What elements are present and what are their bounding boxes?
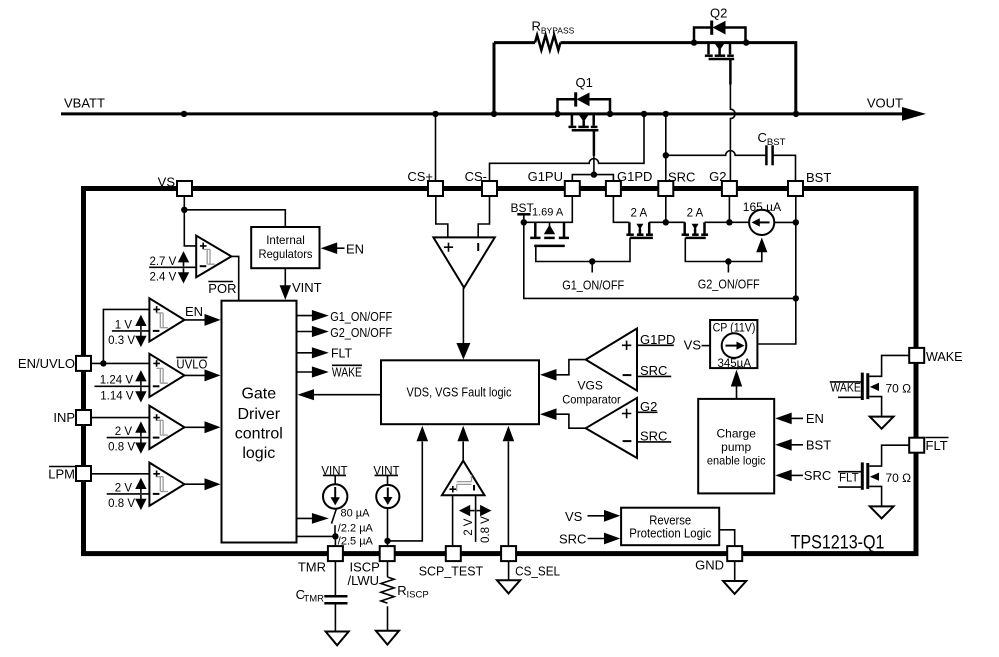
current source 165uA (743, 200, 781, 235)
node SRC input label lower (637, 428, 671, 443)
wire CS+ pin to current sense comparator (436, 196, 448, 237)
transistor 2A G2 pull-down (682, 208, 709, 238)
wire SRC node to G2 pull-down FET (666, 221, 685, 223)
node 80uA current labels (338, 508, 374, 548)
pin CS_SEL (501, 546, 560, 578)
current source VINT TMR (321, 465, 347, 508)
node VS internal junction (181, 207, 187, 213)
svg-text:70 Ω: 70 Ω (886, 471, 912, 485)
wire VS to CP (684, 337, 710, 352)
svg-text:R: R (397, 583, 406, 598)
svg-text:Gate: Gate (241, 386, 276, 403)
wire GND pin to ground (734, 561, 736, 581)
svg-text:EN/UVLO: EN/UVLO (18, 356, 75, 371)
svg-text:FLT: FLT (331, 345, 352, 360)
wire SRC pin internal (665, 196, 667, 222)
op-amp INP comparator (149, 406, 184, 449)
op-amp VGS comparator lower (586, 398, 637, 458)
svg-text:VINT: VINT (292, 280, 322, 295)
ground WAKE (870, 417, 894, 429)
svg-text:Driver: Driver (237, 406, 280, 423)
transistor 2A G1 pull-down (626, 208, 653, 238)
wire SRC to charge pump logic (775, 468, 831, 483)
ground CTMR (326, 632, 349, 646)
wire BST pin vertical to CP (757, 196, 795, 344)
svg-text:CS+: CS+ (407, 169, 433, 184)
node dots on rails (181, 39, 799, 158)
pin INP (53, 410, 91, 425)
wire Q1 gate lead thick (593, 130, 596, 156)
pin SCP_TEST (419, 546, 484, 578)
svg-text:G2_ON/OFF: G2_ON/OFF (698, 277, 760, 292)
wire G1PU pin to pull-up FET (524, 196, 573, 222)
op-amp VDS VGS Fault logic block (381, 360, 539, 424)
wire Q2 gate to G2 pin with hop over main rail (730, 85, 735, 182)
svg-text:BST: BST (511, 201, 535, 215)
node BST junction (521, 219, 527, 225)
svg-text:GND: GND (695, 558, 724, 573)
capacitor CTMR (296, 561, 348, 631)
wire 165uA enable arrow (756, 238, 767, 253)
transistor FLT open-drain (838, 445, 911, 506)
svg-text:2 V: 2 V (463, 518, 475, 536)
svg-text:WAKE: WAKE (926, 349, 963, 364)
wire CS_SEL pin to ground (508, 561, 510, 580)
svg-text:1 V: 1 V (115, 319, 133, 331)
svg-text:0.8 V: 0.8 V (108, 498, 135, 510)
node SRC input label upper (637, 363, 671, 378)
svg-text:G2: G2 (640, 399, 657, 414)
svg-text:ISCP: ISCP (407, 590, 429, 601)
ground FLT (870, 506, 894, 518)
svg-text:VOUT: VOUT (867, 96, 903, 111)
wire LPM pin to comparator (91, 473, 149, 475)
wire Q1 gate thin down to junction (593, 156, 595, 174)
svg-text:/2.2 µA: /2.2 µA (338, 522, 374, 534)
switch TMR current select (332, 509, 337, 536)
wire BST rail to CP node (524, 222, 796, 298)
svg-text:70 Ω: 70 Ω (886, 381, 912, 395)
node G2 input label (637, 399, 658, 414)
pin ISCP/LWU (348, 546, 395, 588)
svg-text:UVLO: UVLO (176, 357, 207, 372)
transistor Q1 (558, 75, 611, 130)
wire CS+ pin to main rail (435, 114, 437, 182)
wire CS- pin to main rail with hop over Q1 gate (490, 114, 645, 182)
ground CS_SEL (497, 580, 520, 593)
wire FET to SRC node (649, 221, 666, 223)
node BST internal supply (511, 201, 535, 222)
pin FLT right (909, 438, 948, 454)
op-amp UVLO comparator (149, 354, 184, 397)
svg-text:LPM: LPM (48, 467, 75, 482)
node TMR net junction (332, 533, 338, 539)
wire G2 node to current source (729, 221, 749, 223)
svg-text:1.69 A: 1.69 A (532, 207, 564, 219)
wire CS comparator output to VDS fault logic (456, 288, 470, 360)
wire ISCP source to pin (387, 508, 389, 546)
current source CP 11V charge pump (710, 320, 757, 370)
svg-text:POR: POR (208, 281, 236, 296)
svg-text:2.4 V: 2.4 V (149, 271, 176, 283)
node UVLO label (176, 357, 207, 372)
svg-text:SCP_TEST: SCP_TEST (419, 564, 484, 579)
wire EN to charge pump logic (775, 411, 824, 426)
node 2V/0.8V threshold INP (107, 421, 150, 453)
wire CS- pin to current sense comparator (478, 196, 489, 237)
svg-text:VS: VS (684, 337, 702, 352)
capacitor CBST (758, 130, 786, 165)
svg-text:SRC: SRC (668, 170, 695, 185)
wire charge pump enable to CP (731, 370, 742, 399)
svg-text:VS: VS (158, 175, 176, 190)
svg-text:1.24 V: 1.24 V (100, 375, 134, 387)
wire SRC node to CBST with hop over G2 line (666, 151, 766, 156)
node VGS Comparator label (562, 379, 621, 407)
svg-text:EN: EN (806, 411, 824, 426)
node POR label (208, 281, 236, 296)
svg-text:WAKE: WAKE (332, 365, 362, 380)
node 1.24V/1.14V threshold (94, 370, 149, 402)
svg-text:2 A: 2 A (631, 208, 648, 220)
wire G1_ON/OFF rail (536, 238, 630, 262)
pin CS+ (407, 169, 443, 196)
svg-text:Protection Logic: Protection Logic (629, 527, 711, 541)
wire SRC to reverse protection (559, 531, 620, 546)
svg-text:80 µA: 80 µA (341, 508, 371, 520)
svg-text:enable logic: enable logic (707, 453, 766, 467)
svg-text:VDS, VGS Fault logic: VDS, VGS Fault logic (407, 385, 512, 400)
svg-text:SRC: SRC (640, 363, 667, 378)
svg-text:G1_ON/OFF: G1_ON/OFF (562, 278, 624, 293)
svg-text:VS: VS (565, 509, 583, 524)
svg-text:2 V: 2 V (115, 426, 133, 438)
wire VS node to POR comparator plus input (184, 210, 196, 246)
op-amp Gate Driver control logic block (222, 301, 297, 543)
svg-text:FLT: FLT (926, 438, 948, 453)
pin BST (788, 170, 831, 196)
pin LPM (48, 466, 91, 482)
op-amp EN comparator (149, 298, 184, 341)
ground GND (723, 581, 746, 594)
pin GND (695, 546, 742, 572)
svg-text:SRC: SRC (559, 531, 586, 546)
wire reverse protection to GND pin (719, 530, 735, 546)
wire EN input to Internal Regulators (321, 241, 364, 256)
wire ISCP current source to VDS logic (388, 426, 429, 541)
op-amp current sense comparator (433, 237, 494, 287)
svg-text:CS-: CS- (465, 169, 487, 184)
svg-text:CS_SEL: CS_SEL (515, 564, 560, 579)
node G1PD input label (637, 332, 675, 347)
wire POR output to Gate Driver logic (231, 256, 238, 300)
svg-text:345µA: 345µA (718, 358, 752, 370)
svg-text:0.3 V: 0.3 V (108, 335, 135, 347)
wire CBST to BST pin (773, 155, 795, 181)
wire VS to reverse protection (565, 509, 620, 524)
svg-text:G2: G2 (709, 169, 726, 184)
op-amp SCP comparator (442, 461, 485, 496)
wire junction to G1PD pin (594, 175, 614, 182)
node 1V/0.3V threshold (108, 315, 149, 347)
svg-text:G1PU: G1PU (528, 169, 563, 184)
op-amp LPM comparator (149, 463, 184, 506)
node 2V/0.8V threshold LPM (107, 478, 150, 510)
svg-text:FLT: FLT (839, 472, 859, 484)
pin CS- (465, 169, 497, 196)
svg-text:G1PD: G1PD (640, 332, 675, 347)
transistor 1.69A pull-up (530, 207, 569, 246)
svg-text:G1PD: G1PD (617, 169, 652, 184)
wire SRC pin to main rail (665, 114, 667, 182)
svg-text:TPS1213-Q1: TPS1213-Q1 (791, 532, 885, 554)
wire UVLO comparator output (184, 374, 207, 376)
op-amp POR comparator (196, 236, 231, 278)
wire bypass top rail right (561, 41, 747, 44)
node 2V/0.8V rotated threshold (459, 495, 492, 543)
transistor WAKE open-drain (830, 355, 911, 416)
transistor Q2 (694, 6, 746, 60)
svg-text:/LWU: /LWU (348, 573, 380, 588)
wire Gate Driver to TMR net (297, 535, 336, 537)
current source VINT ISCP (373, 465, 399, 508)
svg-text:Comparator: Comparator (562, 393, 621, 407)
svg-text:/2.5 µA: /2.5 µA (338, 536, 374, 548)
op-amp U1 TPS1213-Q1 IC outline (84, 189, 917, 554)
pin TMR (298, 546, 343, 574)
ground RISCP (376, 631, 399, 645)
svg-text:BST: BST (806, 170, 831, 185)
pin VS (158, 175, 192, 197)
wire VINT from Internal Regulators to Gate Driver (280, 268, 322, 300)
wire upper VGS comparator output to VDS logic (540, 360, 586, 381)
svg-text:logic: logic (242, 445, 275, 462)
wire CS_SEL pin to VDS logic (503, 426, 515, 546)
svg-text:1.14 V: 1.14 V (100, 390, 134, 402)
wire junction to G1PU pin (572, 175, 594, 182)
wire bypass top rail left (494, 41, 535, 44)
wire SCP comparator output to VDS logic (457, 426, 469, 461)
wire VS pin to internal node (183, 196, 185, 210)
wire SCP_TEST pin to comparator (452, 495, 454, 546)
wire EN comparator output (184, 319, 207, 321)
wire WAKE output (297, 365, 363, 380)
op-amp Charge pump enable logic block (698, 399, 774, 494)
wire TMR junction to pin (334, 536, 336, 546)
wire EN/UVLO pin to comparators (91, 362, 149, 364)
svg-text:Internal: Internal (266, 233, 305, 247)
svg-text:TMR: TMR (298, 560, 326, 575)
node Q1 gate junction (591, 171, 597, 177)
svg-text:0.8 V: 0.8 V (480, 516, 492, 543)
pin G2 (709, 169, 737, 196)
svg-text:INP: INP (53, 410, 75, 425)
resistor RISCP (381, 561, 429, 631)
wire G1PD pin to pull-down FET (613, 196, 629, 222)
svg-text:control: control (235, 426, 283, 443)
node 2.7V/2.4V threshold (149, 251, 196, 283)
svg-text:Q1: Q1 (576, 75, 593, 90)
op-amp U2 Internal Regulators (251, 227, 319, 268)
wire Q2 gate lead thick (729, 59, 732, 85)
svg-text:SRC: SRC (640, 428, 667, 443)
wire FLT output (297, 345, 353, 360)
wire VS node to Internal Regulators (184, 210, 285, 227)
wire VBATT to VOUT main power rail (61, 107, 926, 121)
wire VDS fault to Gate Driver input (298, 389, 382, 400)
wire G2 pin internal (728, 196, 730, 222)
pin SRC (658, 170, 695, 197)
svg-text:2 A: 2 A (687, 208, 704, 220)
wire lower VGS comparator output to VDS logic (540, 408, 586, 428)
wire source to BST vertical (774, 221, 796, 223)
svg-text:Regulators: Regulators (259, 247, 313, 261)
pin G1PD (606, 169, 653, 196)
wire Q2 drain to main rail (746, 43, 796, 114)
pin WAKE right (909, 348, 963, 364)
svg-text:Charge: Charge (717, 427, 757, 441)
wire INP comparator output (184, 426, 207, 428)
svg-text:WAKE: WAKE (830, 383, 861, 395)
svg-text:pump: pump (721, 440, 751, 454)
wire FET to G2 node (705, 221, 730, 223)
svg-text:Reverse: Reverse (649, 514, 691, 528)
svg-text:Q2: Q2 (710, 6, 727, 21)
svg-text:0.8 V: 0.8 V (108, 442, 135, 454)
svg-text:EN: EN (346, 241, 364, 256)
wire G2_ON/OFF rail (685, 238, 762, 262)
svg-text:EN: EN (185, 304, 203, 319)
svg-text:VBATT: VBATT (64, 96, 105, 111)
svg-text:BST: BST (806, 437, 831, 452)
wire R_BYPASS branch riser (493, 43, 496, 114)
wire G2_ON/OFF output (297, 325, 393, 340)
svg-text:2.7 V: 2.7 V (149, 256, 176, 268)
svg-text:G2_ON/OFF: G2_ON/OFF (330, 325, 392, 340)
wire G1_ON/OFF output (297, 309, 393, 324)
wire LPM comparator output (184, 483, 207, 485)
svg-text:TMR: TMR (303, 594, 324, 605)
svg-text:SRC: SRC (804, 468, 831, 483)
op-amp Reverse Protection Logic block (621, 508, 719, 546)
svg-text:2 V: 2 V (115, 482, 133, 494)
resistor RBYPASS (532, 19, 575, 51)
pin G1PU (528, 169, 580, 196)
wire INP pin to comparator (91, 417, 149, 419)
pin EN/UVLO (18, 356, 91, 371)
wire BST to charge pump logic (775, 437, 831, 452)
svg-text:VGS: VGS (578, 379, 603, 393)
node ISCP junction (384, 538, 390, 544)
svg-text:G1_ON/OFF: G1_ON/OFF (330, 309, 392, 324)
op-amp VGS comparator upper (586, 329, 637, 391)
wire Gate Driver to TMR switch arrow (297, 513, 329, 524)
